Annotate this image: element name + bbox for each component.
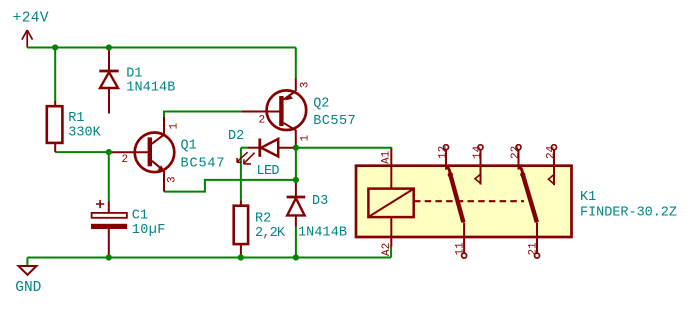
svg-text:2,2K: 2,2K xyxy=(255,226,286,241)
svg-text:2: 2 xyxy=(122,154,129,166)
svg-text:GND: GND xyxy=(15,280,41,296)
svg-text:1N414B: 1N414B xyxy=(298,226,347,241)
svg-text:22: 22 xyxy=(510,146,522,159)
svg-text:BC547: BC547 xyxy=(181,156,225,171)
svg-text:10µF: 10µF xyxy=(132,223,166,238)
svg-text:A2: A2 xyxy=(381,243,393,256)
svg-text:K1: K1 xyxy=(580,190,596,205)
svg-text:A1: A1 xyxy=(381,150,393,164)
svg-text:1: 1 xyxy=(300,135,312,142)
svg-text:24: 24 xyxy=(545,145,557,159)
svg-text:D1: D1 xyxy=(126,67,142,82)
svg-text:3: 3 xyxy=(167,176,179,183)
svg-text:R1: R1 xyxy=(68,111,84,126)
svg-text:BC557: BC557 xyxy=(313,114,356,129)
svg-text:+24V: +24V xyxy=(13,11,49,27)
svg-text:2: 2 xyxy=(259,115,266,127)
svg-text:330K: 330K xyxy=(68,126,101,141)
svg-text:12: 12 xyxy=(437,146,449,159)
svg-text:D2: D2 xyxy=(228,129,244,144)
svg-text:C1: C1 xyxy=(132,208,148,223)
svg-text:3: 3 xyxy=(300,82,312,89)
svg-text:1N414B: 1N414B xyxy=(126,81,175,96)
svg-text:14: 14 xyxy=(472,145,484,159)
svg-text:FINDER-30.2Z: FINDER-30.2Z xyxy=(580,205,677,220)
svg-text:11: 11 xyxy=(455,242,467,256)
svg-text:D3: D3 xyxy=(312,194,328,209)
svg-text:LED: LED xyxy=(257,164,280,179)
svg-text:R2: R2 xyxy=(255,211,271,226)
svg-text:21: 21 xyxy=(527,242,539,256)
svg-text:Q1: Q1 xyxy=(181,139,197,154)
svg-text:1: 1 xyxy=(169,123,181,130)
svg-text:Q2: Q2 xyxy=(313,97,329,112)
